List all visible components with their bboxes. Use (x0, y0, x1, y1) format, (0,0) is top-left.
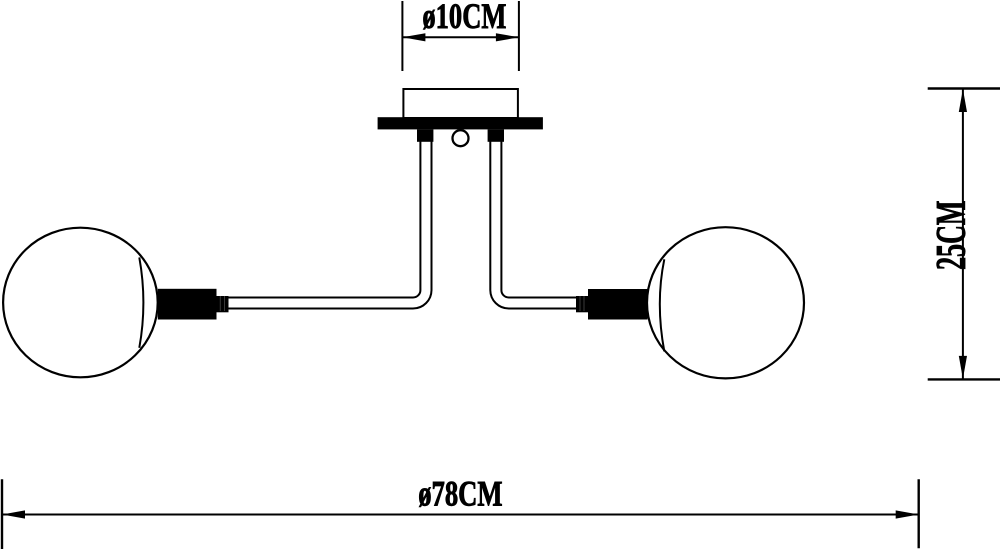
right arm collar (488, 129, 504, 141)
right socket connector rib lines (579, 296, 581, 311)
left socket ribbed connector (217, 296, 229, 312)
svg-text:ø78CM: ø78CM (418, 474, 502, 514)
svg-text:ø10CM: ø10CM (422, 0, 506, 36)
left socket connector rib lines (219, 296, 221, 311)
dim ø78CM right arrowhead (896, 510, 919, 518)
dim ø78CM dimension line (2, 514, 919, 516)
dim ø10CM dimension line (402, 36, 519, 38)
left globe (3, 228, 158, 378)
dim ø10CM left arrowhead (402, 33, 425, 41)
center nipple circle (453, 130, 469, 146)
left arm tube outer wall (229, 141, 432, 309)
left socket body (158, 289, 217, 320)
dim 25CM vertical dimension line (962, 89, 964, 380)
right socket ribbed connector (576, 296, 588, 312)
dim 25CM bottom tick line (928, 378, 1000, 380)
dim ø78CM left arrowhead (2, 510, 25, 518)
canopy plate bar (378, 117, 543, 129)
right globe rim arc (660, 259, 665, 351)
left globe rim arc (139, 257, 143, 347)
right globe (647, 227, 804, 378)
left arm collar (417, 129, 433, 141)
canopy cup rectangle (403, 89, 518, 118)
dim ø78CM right extension line (918, 479, 920, 548)
dim 25CM bottom arrowhead (959, 356, 967, 379)
dim ø10CM left extension line (401, 1, 403, 71)
dim 25CM top arrowhead (959, 89, 967, 112)
dim 25CM top tick line (928, 87, 1000, 89)
right arm tube outer wall (490, 141, 576, 309)
dim ø78CM left extension line (1, 479, 3, 549)
dim ø10CM right arrowhead (496, 33, 519, 41)
dim ø10CM right extension line (518, 1, 520, 71)
left arm tube inner wall (229, 141, 421, 298)
svg-text:25CM: 25CM (929, 201, 975, 271)
right arm tube inner wall (501, 141, 576, 298)
right socket body (588, 289, 648, 320)
